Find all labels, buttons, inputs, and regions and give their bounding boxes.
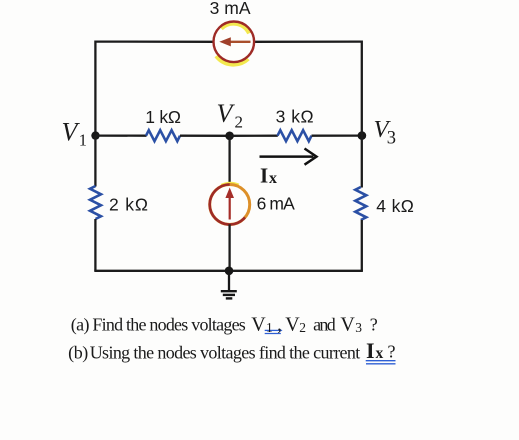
svg-text:3 kΩ: 3 kΩ xyxy=(276,106,314,126)
text question (b) xyxy=(68,338,395,363)
svg-text:Find the nodes voltages: Find the nodes voltages xyxy=(92,315,245,335)
wire right side (V3 node down to resistor 4k) xyxy=(361,41,363,188)
svg-text:and: and xyxy=(313,315,336,335)
svg-text:3 mA: 3 mA xyxy=(210,0,251,18)
svg-text:V: V xyxy=(251,314,266,336)
svg-text:(a): (a) xyxy=(71,315,90,336)
label V2 xyxy=(217,99,244,131)
svg-text:x: x xyxy=(376,345,384,362)
svg-text:x: x xyxy=(269,170,277,187)
svg-text:6 mA: 6 mA xyxy=(257,194,296,214)
label 4 kΩ xyxy=(376,196,414,216)
current source I1 3 mA (yellow highlight + circle + left arrow) xyxy=(214,22,255,64)
wire top-left segment xyxy=(95,40,213,43)
wire middle (resistor 1k to node V2) xyxy=(180,135,230,137)
svg-text:,: , xyxy=(277,315,282,335)
label V1 xyxy=(62,117,88,149)
svg-text:?: ? xyxy=(388,342,396,362)
svg-text:Using the nodes voltages find: Using the nodes voltages find the curren… xyxy=(90,342,361,362)
svg-text:3: 3 xyxy=(387,129,396,149)
node V3 (dot) xyxy=(358,131,367,140)
resistor R1 1 kΩ (zigzag) xyxy=(146,130,180,141)
svg-text:2: 2 xyxy=(235,113,244,132)
wire middle-left (V1 to resistor 1k) xyxy=(95,134,146,136)
text question (a) xyxy=(71,314,378,336)
svg-text:V: V xyxy=(285,314,300,336)
node ground junction (dot) xyxy=(225,267,234,276)
svg-text:I: I xyxy=(260,164,268,188)
annotation double underline under Ix ? xyxy=(366,361,396,364)
svg-text:3: 3 xyxy=(355,320,362,335)
svg-text:I: I xyxy=(366,338,375,363)
wire left side (resistor 2k down to bottom-left corner) xyxy=(94,219,96,271)
wire right side (resistor 4k down to bottom-right corner) xyxy=(361,220,363,271)
svg-text:2 kΩ: 2 kΩ xyxy=(109,195,148,215)
resistor R3 2 kΩ (vertical zigzag) xyxy=(90,186,101,219)
wire left side (top part, V1 node to top-left corner) xyxy=(94,41,96,137)
wire middle (node V2 to resistor 3k) xyxy=(230,135,278,137)
label 3 mA xyxy=(210,0,251,18)
svg-text:?: ? xyxy=(370,315,378,335)
svg-text:1: 1 xyxy=(79,130,87,149)
wire middle-right (resistor 3k to node V3) xyxy=(312,134,363,136)
svg-text:V: V xyxy=(340,314,355,336)
label 6 mA xyxy=(257,194,296,214)
label Ix xyxy=(260,164,277,188)
svg-text:(b): (b) xyxy=(68,342,88,363)
wire left side (V1 node down to resistor 2k) xyxy=(94,136,96,187)
node V2 (dot) xyxy=(225,132,234,141)
label 1 kΩ xyxy=(145,107,181,127)
svg-text:4 kΩ: 4 kΩ xyxy=(376,196,414,216)
current source I2 6 mA (orange/red circle + up arrow) xyxy=(210,184,250,225)
node V1 (dot) xyxy=(91,131,99,139)
ground symbol xyxy=(221,271,237,299)
resistor R4 4 kΩ (vertical zigzag) xyxy=(355,187,366,220)
svg-text:1: 1 xyxy=(266,320,273,335)
annotation double underline under V1 subscript xyxy=(265,329,283,334)
resistor R2 3 kΩ (zigzag) xyxy=(278,130,312,141)
wire bottom side xyxy=(94,270,363,272)
wire middle vertical (6mA source down to bottom wire) xyxy=(228,224,230,271)
svg-text:2: 2 xyxy=(299,320,306,335)
wire top-right segment xyxy=(254,40,362,43)
wire middle vertical (V2 down to 6mA source) xyxy=(228,136,230,185)
label 2 kΩ xyxy=(109,195,148,215)
svg-text:1 kΩ: 1 kΩ xyxy=(145,107,181,127)
label 3 kΩ xyxy=(276,106,314,126)
current arrow Ix xyxy=(260,149,317,165)
label V3 xyxy=(374,116,397,149)
